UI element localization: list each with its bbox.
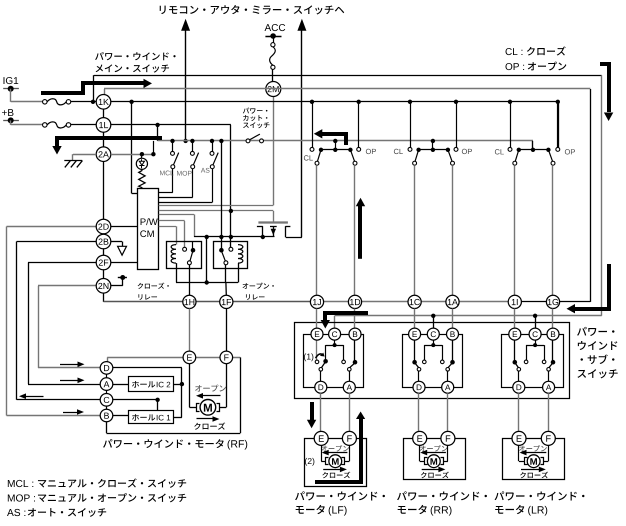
wire: stub rail to 1K top xyxy=(104,89,106,95)
wire: right outer vertical (gray) down to sub-switch C feed xyxy=(601,75,603,316)
sub switch B1 drop xyxy=(354,340,356,360)
terminal F (RR) xyxy=(441,431,455,445)
wire: A row to hall IC2 xyxy=(113,384,129,386)
wire: open relay coil to output line xyxy=(238,263,240,282)
label OP (group C) xyxy=(565,149,575,154)
connector 2B xyxy=(96,234,111,249)
sub-switch unit box xyxy=(295,323,570,399)
wire: 1L rail (y125) xyxy=(70,124,231,126)
flow arrow B row xyxy=(63,412,78,414)
flow arrow open xyxy=(328,452,348,454)
motor M LF xyxy=(329,455,342,468)
label CL (group B) xyxy=(394,149,403,154)
wire: P/W CM to close-relay coil (gray) xyxy=(159,226,176,228)
wire: 1K to P/W CM (vertical x131) xyxy=(131,102,133,194)
wire: P/W CM to FET gate (gray) xyxy=(159,210,274,212)
wire: B down to box bottom xyxy=(106,422,108,433)
wire: right output down to connector xyxy=(354,165,356,295)
wire: common down between relays xyxy=(206,237,208,283)
wire: C feed line (y316, gray) xyxy=(335,315,602,317)
label (2) xyxy=(305,458,314,466)
wire: E1 feed from connector xyxy=(316,309,318,329)
sub switch E2 drop xyxy=(414,340,416,360)
sub switch E1 drop xyxy=(316,340,318,360)
wire: 2D left (gray) xyxy=(7,226,97,228)
node: C2 feed junction xyxy=(431,314,435,318)
wire: IG1 to fuse (gray) xyxy=(11,101,43,103)
wire: B row left (gray) xyxy=(7,415,101,417)
sub switch B2 drop xyxy=(452,340,454,360)
sub switch blades group 3 xyxy=(516,364,519,368)
wire: P/W CM to FET/relay common (gray) xyxy=(159,214,194,216)
wire: to mirror switch (left, with up arrow) xyxy=(185,30,187,141)
motor M LR xyxy=(527,455,540,468)
connector 1J xyxy=(310,295,323,308)
main switch blade left xyxy=(317,150,321,162)
motor box RR xyxy=(404,439,466,480)
terminal +B xyxy=(2,109,13,116)
wire: B1 feed from connector xyxy=(354,309,356,329)
label close (motor) xyxy=(520,472,548,479)
wire: left output down to connector xyxy=(414,165,416,295)
node: 1L rail junction feeding switch rail xyxy=(155,123,159,127)
flow arrow: up from 1D xyxy=(358,206,362,259)
node: relay output junction xyxy=(205,280,209,284)
wire: CL contact feed from 1K rail xyxy=(410,102,412,148)
terminal IG1 xyxy=(4,77,19,84)
legend AS xyxy=(7,509,25,516)
terminal F (RF) xyxy=(220,351,233,364)
connector 1G xyxy=(546,295,559,308)
sub switch blades group 2 xyxy=(415,364,418,368)
close relay pivot xyxy=(192,242,194,248)
legend OP = open xyxy=(505,63,524,70)
wire: MCL to P/W CM xyxy=(172,169,174,193)
wire: internal +B feed rail (y141, gray) xyxy=(158,140,533,142)
open relay contact (fixed) xyxy=(229,247,233,251)
connector 2A xyxy=(96,147,111,162)
connector 2N xyxy=(96,279,111,294)
label open (motor) xyxy=(420,445,448,451)
wire: B row to hall IC1 xyxy=(113,415,129,417)
terminal E2 xyxy=(409,328,421,340)
relay: open relay (box) xyxy=(214,242,248,269)
flow arrow: down into motor LF E xyxy=(310,402,314,421)
main switch group post (x533) xyxy=(532,141,534,150)
sub switch pivots group 2 xyxy=(417,368,421,372)
wire: D row right to edge xyxy=(113,367,182,369)
label: power window motor LR xyxy=(495,491,585,500)
main switch group post (x335.3) xyxy=(333,139,337,143)
terminal D (RF) xyxy=(100,362,113,375)
node: 1K rail junction (x131) xyxy=(129,100,133,104)
main switch blade right xyxy=(548,150,552,162)
motor terminals xyxy=(525,458,528,465)
sub switch pivots group 1 xyxy=(319,368,323,372)
label: power cut switch xyxy=(243,108,268,114)
terminal C (RF) xyxy=(100,394,113,407)
control module P/W CM xyxy=(138,189,159,270)
transistor Q1 drain terminal xyxy=(257,226,263,228)
terminal F (LF) xyxy=(342,431,356,445)
wire: C row left xyxy=(17,399,101,401)
sub switch B3 drop xyxy=(552,340,554,360)
label open (motor) xyxy=(519,445,547,451)
wire: 1F down to motor RF F xyxy=(226,309,228,352)
wire: E3 feed from connector xyxy=(514,309,516,329)
connector 1D xyxy=(348,295,361,308)
wire: B2 feed from connector xyxy=(452,309,454,329)
terminal B2 xyxy=(447,328,459,340)
wire: close relay coil to output line xyxy=(176,263,178,282)
transistor Q1 source terminal xyxy=(285,226,290,228)
wire: column to 1H (row line start) xyxy=(104,301,190,303)
label: power window sub switch xyxy=(577,327,614,336)
terminal D1 xyxy=(315,381,327,393)
main switch blade left xyxy=(415,150,419,162)
sub switch group 1 box xyxy=(304,335,364,388)
wire: P/W CM to 2M riser (gray stub) xyxy=(159,205,274,207)
label: power window motor RR xyxy=(397,491,487,500)
wire: hall IC1 output xyxy=(173,417,182,419)
wire: C2 stem xyxy=(433,316,435,328)
wire: open relay output to 1F xyxy=(225,265,227,283)
wire: right output down to connector xyxy=(452,165,454,295)
terminal B1 xyxy=(349,328,361,340)
flow arrow open xyxy=(526,452,547,454)
close relay blade xyxy=(190,252,193,261)
main switch group post (x432.9) xyxy=(431,139,435,143)
main switch contact bar xyxy=(519,149,549,151)
wire: 2B to continuation marker xyxy=(111,241,122,243)
wire: C to hall IC1 xyxy=(157,400,159,411)
sub switch blades group 1 xyxy=(321,363,325,368)
wire: +B rail to right relay contact (vertical x231) xyxy=(230,125,232,247)
terminal ACC xyxy=(265,36,281,38)
label: to remote outer mirror switch xyxy=(160,5,345,14)
wire: relay output line (y282) xyxy=(176,282,238,284)
circuit breaker (ACC line) xyxy=(271,43,275,47)
wire: right output down to connector xyxy=(552,165,554,295)
node: +B rail tap junction xyxy=(151,152,155,156)
wire: C3 stem xyxy=(535,316,537,328)
wire: OP contact feed from 1K rail xyxy=(456,102,458,148)
label OP (group A) xyxy=(366,149,376,154)
wire: AS to P/W CM xyxy=(212,169,214,203)
ground (chassis) xyxy=(64,160,82,162)
open relay coil xyxy=(238,245,243,264)
wire: D to motor E (gray) xyxy=(418,393,420,431)
flow arrow: to ground (left) xyxy=(57,138,162,146)
wire: to mirror switch (right, with up arrow) / FET source riser xyxy=(301,30,303,238)
flow arrow C row xyxy=(25,396,44,398)
motor RF outer box (top, gray) xyxy=(107,357,240,359)
terminal C2 xyxy=(427,328,439,340)
open relay pivot xyxy=(219,248,224,253)
legend MOP xyxy=(8,494,35,501)
node: top-rail junction at 1K rail xyxy=(91,100,95,104)
flow arrow close xyxy=(422,469,440,471)
terminal A2 xyxy=(442,381,454,393)
wire: MOP to P/W CM xyxy=(192,169,194,198)
label close (motor) xyxy=(322,472,350,479)
hall IC 1 xyxy=(129,411,174,424)
main switch contact bar xyxy=(419,149,448,151)
relay: close relay (box) xyxy=(167,242,202,269)
switch: power cut switch xyxy=(246,139,250,143)
hall IC 2 xyxy=(129,377,174,392)
connector 1A xyxy=(446,295,459,308)
wire: FET/relay common line (y237) xyxy=(194,236,275,238)
node: C/IC1 junction xyxy=(155,398,159,402)
connector 2F xyxy=(96,255,111,270)
main switch CL contact xyxy=(310,147,314,151)
wire: 2F left xyxy=(28,262,96,264)
wire: ACC rail through 2M (gray) xyxy=(104,88,590,90)
wire: connector row line (gray part) xyxy=(317,301,515,303)
main switch contact bar xyxy=(321,149,350,151)
wire: top rail corner down to 1K rail xyxy=(93,75,95,102)
switch MOP xyxy=(190,139,194,143)
terminal column link xyxy=(107,357,109,361)
label AS xyxy=(201,168,210,173)
main switch blade right xyxy=(350,150,354,162)
wire: breaker to connector 2M xyxy=(272,69,274,81)
transistor Q1 body arrow xyxy=(270,226,277,228)
wire: right inner vertical (black) down to connector row xyxy=(590,89,592,302)
wire: left output down to connector xyxy=(316,165,318,295)
terminal D2 xyxy=(413,381,425,393)
sub switch C1 contact tree xyxy=(334,340,336,345)
connector 2M xyxy=(266,82,281,97)
terminal E (RR) xyxy=(413,431,427,445)
connector 2D xyxy=(96,219,111,234)
node: LED branch junction xyxy=(140,152,144,156)
wire: +B to fuse (gray) xyxy=(11,124,43,126)
label: power window main switch xyxy=(95,52,176,60)
terminal E3 xyxy=(509,328,521,340)
node: +B drop junction xyxy=(219,235,223,239)
LED (indicator) D1 xyxy=(141,154,143,158)
main switch blade right xyxy=(448,150,452,162)
label close (motor) xyxy=(421,472,449,479)
wire: OP contact feed from 1K rail xyxy=(557,102,559,148)
wire: top rail (y75) to right edge xyxy=(94,75,602,77)
motor box LR xyxy=(503,439,565,480)
fuse F1 (IG1 line) xyxy=(43,100,48,105)
flow arrow close xyxy=(521,469,540,471)
sub switch E3 drop xyxy=(514,340,516,360)
terminal D3 xyxy=(513,381,525,393)
flow arrow D row xyxy=(60,364,79,366)
terminal F (LR) xyxy=(541,431,555,445)
wire: connector 2M to P/W CM (vertical) xyxy=(273,97,275,206)
transistor Q1 (FET) gate bar xyxy=(258,221,288,223)
label close (RF) xyxy=(194,422,225,429)
wire: connector row line (dark part) xyxy=(189,301,317,303)
flow arrow close xyxy=(323,469,341,471)
connector 1I xyxy=(508,295,521,308)
legend CL = close xyxy=(506,48,523,55)
wire: 2D to P/W CM xyxy=(111,226,137,228)
label MOP xyxy=(177,171,192,176)
wire: A to motor F (gray) xyxy=(349,393,351,431)
open relay blade xyxy=(222,252,226,261)
wire: 1K rail corner down to main switch OP contact (group C) xyxy=(558,102,560,148)
connector 1H xyxy=(183,295,196,308)
sub switch D3/A3 stems xyxy=(518,371,520,381)
terminal C1 xyxy=(329,328,341,340)
wire: hall IC2 output xyxy=(173,384,182,386)
sub switch C2 contact tree xyxy=(433,340,435,345)
terminal C3 xyxy=(529,328,541,340)
sub switch group 3 box xyxy=(502,335,564,388)
node: relay feed junction xyxy=(205,235,209,239)
wire: A to motor F (gray) xyxy=(548,393,550,431)
label open (RF) xyxy=(195,385,226,392)
connector 1L xyxy=(96,118,111,133)
label CL (group C) xyxy=(495,149,504,154)
wire: F down to motor xyxy=(226,364,228,408)
main switch CL contact xyxy=(508,147,512,151)
wire: 2A to ground (gray) xyxy=(73,154,96,156)
sub switch pivots group 3 xyxy=(517,368,521,372)
wire: A to motor F (gray) xyxy=(447,393,449,431)
label: power window motor LF xyxy=(295,491,385,500)
motor terminals xyxy=(326,458,329,465)
wire: left output down to connector xyxy=(514,165,516,295)
node: gate line junction to right relay xyxy=(229,209,233,213)
wire: A row left xyxy=(28,384,100,386)
close relay contact (fixed) xyxy=(183,247,187,251)
label CL (group A) xyxy=(304,155,313,160)
wire: P/W CM to close-relay contact (gray) xyxy=(159,220,185,222)
wire: 1L rail corner down to internal +B rail xyxy=(157,125,159,141)
terminal B3 xyxy=(547,328,559,340)
main switch blade left xyxy=(515,150,519,162)
sub switch D1/A1 stems xyxy=(320,371,322,381)
motor M RR xyxy=(427,455,440,468)
wire: connector row line (black part) xyxy=(515,301,591,303)
main switch OP contact xyxy=(556,147,560,151)
label MCL xyxy=(160,171,174,176)
wire: close relay output to 1H xyxy=(189,265,191,296)
label: power window motor RF xyxy=(103,439,224,448)
flow arrow open xyxy=(426,452,446,454)
label ACC xyxy=(265,24,286,31)
terminal B (RF) xyxy=(100,409,113,422)
label (1) xyxy=(304,353,313,361)
flow arrow: motor LF return (thick L up) xyxy=(315,418,361,482)
flow arrow: down right edge (top) xyxy=(600,64,609,112)
resistor R1 xyxy=(139,169,145,189)
node: C3 feed junction xyxy=(533,314,537,318)
sub switch group 2 box xyxy=(403,335,463,388)
wire: D to motor E (gray) xyxy=(320,393,322,431)
connector 1F xyxy=(220,295,233,308)
motor M (RF) xyxy=(200,400,216,416)
terminal A3 xyxy=(543,381,555,393)
motor terminals xyxy=(425,458,428,465)
flow arrow close RF xyxy=(197,418,214,420)
wire: D row left (gray) xyxy=(38,367,100,369)
terminal E1 xyxy=(311,328,323,340)
connector 1C xyxy=(408,295,421,308)
wire: E2 feed from connector xyxy=(414,309,416,329)
flow arrow: feed into main switch (top left) xyxy=(41,83,144,93)
label: close relay xyxy=(138,283,169,289)
wire: 2D to B-row (left vertical, gray) xyxy=(6,227,8,416)
flow arrow A row xyxy=(60,380,79,382)
terminal E (LR) xyxy=(512,431,526,445)
label OP (group B) xyxy=(462,149,472,154)
node: IC2 output junction xyxy=(180,382,184,386)
wire: +B direct drop to left-relay region xyxy=(221,141,223,250)
wire: rail corner down to main switch group C post xyxy=(532,141,534,150)
marker: open triangle xyxy=(118,246,127,255)
terminal E (LF) xyxy=(314,431,328,445)
node: +B rail junction x221 xyxy=(219,139,223,143)
connector 1K xyxy=(96,95,111,110)
wire: OP contact feed from 1K rail xyxy=(358,102,360,148)
sub switch C3 contact tree xyxy=(535,340,537,345)
motor RF outer box right/bottom xyxy=(240,357,242,433)
node: junction on +B feed rail xyxy=(183,139,187,143)
flow arrow open RF xyxy=(202,395,221,397)
node: contact feed junction xyxy=(229,235,233,239)
terminal E (RF) xyxy=(183,351,196,364)
wire: 2F to P/W CM xyxy=(111,262,137,264)
wire: 1K rail (y102) xyxy=(70,101,558,103)
main switch OP contact xyxy=(454,147,458,151)
wire: 2N left (gray) xyxy=(38,285,96,287)
wire: C row right xyxy=(113,399,158,401)
wire: connector column 1K-2N (vertical) xyxy=(103,102,105,302)
switch AS xyxy=(210,139,214,143)
terminal A1 xyxy=(343,381,355,393)
label: open relay xyxy=(243,283,274,289)
wire: CL contact feed from 1K rail xyxy=(312,102,314,148)
node: FET drain junction xyxy=(261,235,265,239)
connector 2N pigtail xyxy=(118,277,127,279)
motor box LF xyxy=(305,439,367,487)
wire: CL contact feed from 1K rail xyxy=(510,102,512,148)
wire: 1H down to motor RF E (gray) xyxy=(189,309,191,352)
fuse F2 (+B line) xyxy=(43,123,48,128)
wire: B3 feed from connector xyxy=(552,309,554,329)
rotation arrow (group 1 blade) xyxy=(316,354,323,358)
wire: +B rail tap down to 2A rail xyxy=(153,141,155,154)
wire: 2B left xyxy=(17,241,97,243)
switch MCL xyxy=(170,139,174,143)
sub switch D2/A2 stems xyxy=(418,371,420,381)
flow arrow: right edge into 1G xyxy=(575,264,609,309)
terminal A (RF) xyxy=(100,378,113,391)
main switch CL contact xyxy=(408,147,412,151)
close relay coil xyxy=(171,245,176,264)
flow arrow: into sub switch E1 xyxy=(325,313,368,321)
wire: D to motor E (gray) xyxy=(518,393,520,431)
wire: E down to motor xyxy=(189,364,191,408)
legend MCL xyxy=(8,480,33,487)
label open (motor) xyxy=(321,445,349,451)
wire: 2A rail to LED branch (gray) xyxy=(111,154,154,156)
main switch OP contact xyxy=(357,147,361,151)
flow arrow: into group A CL xyxy=(320,134,346,145)
